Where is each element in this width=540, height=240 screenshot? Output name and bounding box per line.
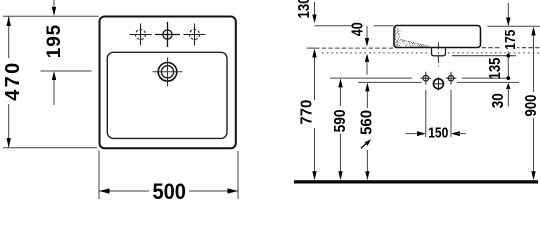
basin section stipple — [395, 27, 431, 48]
dimension 470 — [2, 16, 24, 148]
dimension 900 — [523, 27, 540, 181]
svg-text:560: 560 — [359, 110, 376, 135]
drain centre line — [437, 43, 439, 67]
svg-text:150: 150 — [428, 125, 448, 142]
extension line B (drain level) — [358, 81, 422, 83]
svg-text:590: 590 — [332, 109, 349, 132]
line at outlet height 175 — [452, 55, 516, 57]
counter line left of basin — [307, 47, 315, 49]
svg-text:500: 500 — [152, 179, 186, 200]
dimension 590 — [332, 78, 349, 180]
dimension 135 — [487, 57, 510, 80]
dimension 560 — [359, 82, 376, 180]
faucet hole (double circle) — [153, 58, 183, 87]
dimension 770 — [299, 49, 317, 181]
dimension 150 — [406, 125, 467, 142]
fixing hole right — [446, 72, 457, 85]
extension line A (fixing holes level) — [330, 77, 412, 79]
extension lines below fixing holes — [425, 90, 427, 137]
dimension 130 — [296, 0, 317, 23]
floor line — [294, 180, 538, 183]
tap hole centre (solid) — [155, 22, 180, 47]
svg-text:195: 195 — [44, 24, 65, 58]
tap hole left (dashed) — [130, 24, 152, 46]
basin inner bowl outline — [107, 52, 227, 138]
drain fitting — [432, 48, 446, 56]
dimension 500 — [99, 151, 238, 205]
svg-text:470: 470 — [2, 63, 24, 101]
fixing hole left — [420, 72, 431, 85]
svg-text:40: 40 — [350, 22, 367, 36]
extension line bottom (470) — [3, 147, 97, 149]
svg-text:770: 770 — [299, 100, 316, 125]
extension line basin top, right part — [488, 25, 540, 27]
extension line 195 (faucet level) — [41, 70, 92, 72]
dimension 195 — [44, 0, 65, 105]
basin outer outline — [100, 17, 236, 149]
svg-text:130: 130 — [296, 0, 313, 19]
dimension 40 — [350, 22, 370, 74]
svg-text:900: 900 — [523, 95, 540, 117]
extension line top (470/195) — [3, 15, 99, 17]
drain outlet circle — [433, 77, 444, 90]
dotted line under counter — [322, 52, 430, 54]
extension line basin top, left part (gap for 40 text) — [315, 25, 353, 27]
dimension 175 — [502, 3, 519, 78]
svg-text:175: 175 — [502, 30, 519, 50]
dimension 30 — [490, 83, 510, 109]
tap hole right (dashed) — [184, 24, 206, 46]
hidden line right of basin — [482, 47, 540, 49]
basin side outline — [394, 26, 481, 48]
svg-text:135: 135 — [487, 57, 504, 79]
svg-text:30: 30 — [490, 93, 507, 108]
